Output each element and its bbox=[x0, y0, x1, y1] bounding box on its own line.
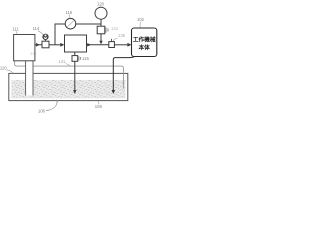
branch riser x=55 bbox=[54, 24, 56, 45]
main pipe: unit 112 to valve 118 bbox=[87, 44, 110, 46]
leader 108 bbox=[98, 101, 100, 104]
svg-text:116: 116 bbox=[65, 10, 72, 15]
arrow into pump bbox=[36, 43, 40, 47]
arrow into unit 112 bbox=[60, 43, 64, 47]
unit box 112 (large rectangle) bbox=[65, 35, 87, 52]
svg-text:120: 120 bbox=[97, 1, 105, 6]
leader 106 (J curve to tank bottom) bbox=[46, 100, 57, 110]
leader 110 bbox=[6, 70, 13, 73]
arrow down onto pipe bbox=[99, 41, 102, 45]
pressure gauge 120 bbox=[95, 7, 107, 19]
svg-text:工作機械: 工作機械 bbox=[133, 36, 156, 44]
drain drop into tank bbox=[74, 61, 76, 90]
drain valve 115 body bbox=[72, 56, 78, 62]
leader 114 bbox=[38, 31, 43, 35]
motor M symbol bbox=[43, 34, 48, 39]
return arrow into oil bbox=[112, 90, 115, 94]
valve 116 (circle) bbox=[65, 18, 76, 29]
relief valve spring ticks bbox=[105, 27, 107, 32]
suction pipe into tank (twin walls, white bore) bbox=[26, 61, 33, 96]
pump motor stem bbox=[45, 39, 47, 41]
valve 118 stem bbox=[111, 39, 113, 42]
valve 115 side ticks bbox=[78, 56, 80, 60]
svg-text:111: 111 bbox=[12, 27, 19, 32]
svg-text:106: 106 bbox=[38, 109, 46, 114]
leader 120 bbox=[100, 6, 102, 8]
svg-text:121: 121 bbox=[30, 51, 38, 56]
svg-text:110: 110 bbox=[0, 65, 7, 70]
svg-text:102: 102 bbox=[137, 17, 145, 22]
svg-text:108: 108 bbox=[95, 104, 103, 109]
gauge stem bbox=[100, 19, 102, 26]
leader 102 bbox=[139, 22, 141, 28]
drain arrow into oil bbox=[73, 90, 76, 94]
svg-text:114: 114 bbox=[33, 26, 40, 31]
pump 114 body bbox=[42, 41, 49, 48]
tank T (oil reservoir outline) bbox=[9, 73, 128, 100]
tick at tank bottom for 106 bbox=[57, 100, 58, 103]
branch run valve116 to gauge tee bbox=[76, 23, 102, 25]
gray return line (from box 111 bottom, along y=66, down at x=123.4 into tank) bbox=[15, 61, 124, 89]
main pipe: pump to unit 112 bbox=[49, 44, 61, 46]
relief valve 122 body bbox=[97, 26, 105, 34]
leader 116 bbox=[68, 15, 71, 19]
main pipe: valve 118 to work body bbox=[114, 44, 127, 46]
arrow into work body bbox=[127, 43, 131, 47]
svg-text:138: 138 bbox=[118, 33, 126, 38]
relief valve drop to pipe bbox=[100, 34, 102, 41]
work machine body box 102 bbox=[132, 28, 157, 57]
svg-text:141: 141 bbox=[59, 59, 67, 64]
svg-text:本体: 本体 bbox=[139, 44, 151, 52]
filter box 111 bbox=[14, 35, 35, 61]
leader 138 bbox=[113, 38, 118, 41]
leader 111 bbox=[16, 31, 17, 34]
branch top run to valve 116 bbox=[55, 23, 66, 25]
svg-text:122: 122 bbox=[111, 26, 119, 31]
drain drop from unit 112 bbox=[74, 52, 76, 56]
valve 118 body bbox=[109, 42, 115, 48]
svg-text:115: 115 bbox=[82, 56, 89, 61]
dark return line from work body into tank bbox=[113, 57, 134, 91]
tank oil stipple fill bbox=[11, 80, 125, 98]
small arrow after unit 112 bbox=[87, 43, 91, 46]
leader 141 bbox=[66, 63, 71, 65]
main pipe: box111 to pump 114 bbox=[35, 44, 42, 46]
